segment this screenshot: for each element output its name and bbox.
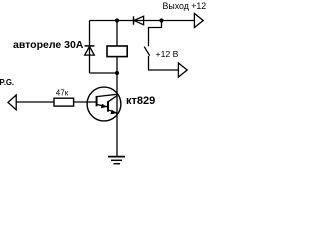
svg-text:47к: 47к — [56, 88, 69, 97]
connector terminal Выход +12 (triangle pointing right) — [194, 14, 203, 28]
transistor Q1 second-stage collector line — [108, 96, 117, 102]
svg-text:Выход +12: Выход +12 — [163, 1, 207, 11]
label 47к — [56, 88, 69, 97]
label Выход +12 — [163, 1, 207, 11]
wire collector-emitter rail down to ground — [116, 73, 118, 156]
svg-text:P.G.: P.G. — [0, 78, 14, 87]
label +12 В — [156, 49, 179, 59]
label P.G. — [0, 78, 14, 87]
resistor R1 47к body — [54, 98, 74, 106]
relay coil K1 (автореле 30А) rectangle — [107, 46, 127, 57]
wire from P.G. connector to resistor — [16, 101, 54, 103]
label автореле 30А — [13, 39, 84, 51]
wire from switch to +12V connector — [149, 56, 179, 70]
connector terminal P.G. (triangle pointing left) — [8, 95, 16, 110]
wire from output node down-left to switch — [149, 21, 162, 47]
wire from resistor to transistor base — [74, 101, 96, 103]
flyback diode D2 across relay coil (cathode bar up, triangle pointing up) — [85, 46, 95, 55]
switch S1 blade — [144, 47, 150, 56]
svg-text:автореле 30А: автореле 30А — [13, 39, 84, 51]
wire top rail from left branch corner to output connector — [90, 20, 195, 22]
svg-text:+12 В: +12 В — [156, 49, 179, 59]
svg-text:кт829: кт829 — [126, 95, 155, 107]
diode D1 in top rail (cathode bar left, triangle pointing left) — [134, 16, 144, 25]
wire left flyback-diode branch vertical — [89, 21, 91, 74]
label кт829 — [126, 95, 155, 107]
transistor Q1 second-stage emitter line with arrow to rail — [108, 110, 117, 115]
transistor Q1 first-stage collector line — [97, 94, 117, 96]
transistor Q1 base bar (first stage) — [96, 96, 98, 106]
transistor Q1 first-stage emitter line with arrow to second base — [97, 104, 108, 109]
wire relay coil branch vertical — [116, 21, 118, 47]
transistor Q1 кт829 Darlington circle — [87, 87, 121, 121]
node junction dot at relay branch top — [115, 18, 119, 22]
wire relay coil to collector node — [116, 57, 118, 74]
transistor Q1 second-stage base bar — [107, 101, 109, 111]
node junction dot at collector — [115, 71, 119, 75]
ground symbol — [108, 157, 125, 164]
connector terminal +12 В (triangle pointing right) — [178, 63, 187, 77]
node junction dot at output/switch branch — [159, 18, 163, 22]
wire bottom link from flyback branch to collector node — [90, 72, 118, 74]
